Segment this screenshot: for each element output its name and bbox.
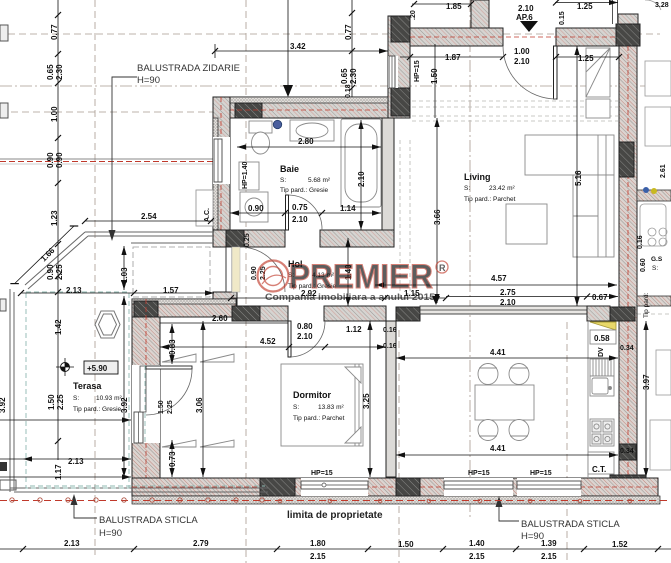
svg-text:A.C.: A.C. <box>204 208 211 222</box>
svg-text:1.23: 1.23 <box>50 210 59 226</box>
svg-text:2.10: 2.10 <box>500 298 516 307</box>
svg-text:5.16: 5.16 <box>574 170 583 186</box>
svg-text:4.41: 4.41 <box>490 444 506 453</box>
wall stub top corridor <box>471 0 489 28</box>
svg-text:2.10: 2.10 <box>514 57 530 66</box>
svg-text:1.25: 1.25 <box>578 54 594 63</box>
svg-text:2.80: 2.80 <box>298 137 314 146</box>
red dash baie north <box>213 109 394 111</box>
coffee table <box>506 204 547 244</box>
svg-text:limita de proprietate: limita de proprietate <box>287 510 383 521</box>
svg-text:PREMIER: PREMIER <box>289 258 433 296</box>
dashed rect above terasa <box>133 247 210 297</box>
svg-text:2.10: 2.10 <box>297 332 313 341</box>
svg-text:3.66: 3.66 <box>433 209 442 225</box>
svg-text:H=90: H=90 <box>521 531 544 542</box>
svg-text:0.60: 0.60 <box>640 258 647 272</box>
dormitor balcony window door arc <box>0 0 1 1</box>
bed head lines <box>355 364 359 446</box>
svg-text:3.92: 3.92 <box>0 397 7 413</box>
svg-text:HP=15: HP=15 <box>468 470 490 477</box>
svg-text:4.57: 4.57 <box>491 274 507 283</box>
dim 4.41 kitchen bottom <box>396 454 618 456</box>
dim 0.73 line <box>171 440 173 477</box>
svg-text:2.10: 2.10 <box>357 171 366 187</box>
block south wall 2 <box>396 478 420 496</box>
dim 2.54 line <box>85 220 213 222</box>
dim line baie y213 <box>230 212 381 214</box>
svg-text:1.00: 1.00 <box>50 106 59 122</box>
red dash east wall <box>627 46 629 496</box>
red dash dormitor west <box>145 299 147 478</box>
block SE corner <box>610 475 646 496</box>
svg-text:4.52: 4.52 <box>260 337 276 346</box>
neighbor cabinet 2 <box>645 107 671 146</box>
svg-text:1.52: 1.52 <box>612 540 628 549</box>
watermark R circle <box>436 261 448 273</box>
watermark logo circle <box>258 261 289 292</box>
block south wall 1 <box>260 478 295 496</box>
svg-text:2.15: 2.15 <box>310 552 326 561</box>
axis vertical x246 <box>245 0 247 563</box>
neighbor wall band 1 <box>637 190 671 201</box>
3.66 bottom arrow <box>432 296 440 305</box>
svg-text:3.42: 3.42 <box>290 42 306 51</box>
svg-text:H=90: H=90 <box>137 75 160 86</box>
dim 4.41 kitchen top <box>396 357 618 359</box>
svg-text:Compania imobiliara a anului 2: Compania imobiliara a anului 2015 <box>265 292 436 303</box>
parapet bottom <box>10 487 268 489</box>
wardrobe entry <box>586 48 610 97</box>
svg-text:5.68 m²: 5.68 m² <box>308 177 331 184</box>
dim 3.66 living <box>436 118 438 303</box>
glass partition living-kitchen <box>420 306 587 314</box>
label terasa <box>73 381 122 413</box>
svg-text:1.42: 1.42 <box>54 319 63 335</box>
wall entry north left <box>410 28 503 46</box>
toilet <box>249 121 272 154</box>
svg-text:0.90: 0.90 <box>248 204 264 213</box>
svg-text:0.90: 0.90 <box>46 264 55 280</box>
label living <box>464 172 516 203</box>
svg-text:1.40: 1.40 <box>469 539 485 548</box>
svg-text:BALUSTRADA STICLA: BALUSTRADA STICLA <box>99 515 198 526</box>
svg-text:1.87: 1.87 <box>445 53 461 62</box>
svg-text:2.15: 2.15 <box>469 552 485 561</box>
floor drain blue <box>273 120 281 128</box>
dim line terasa y293 <box>21 292 214 294</box>
neighbor cabinet 1 <box>645 61 671 96</box>
svg-text:Dormitor: Dormitor <box>293 390 331 400</box>
svg-text:1.12: 1.12 <box>346 325 362 334</box>
svg-text:1.00: 1.00 <box>514 47 530 56</box>
svg-text:13.83 m²: 13.83 m² <box>318 404 344 411</box>
wall hol-dormitor right <box>324 306 386 321</box>
pillow 1 <box>345 367 361 383</box>
wall kitchen north stub <box>587 306 610 321</box>
svg-text:2.60: 2.60 <box>212 314 228 323</box>
window kitchen south 1 <box>444 478 513 496</box>
window dormitor west <box>132 365 160 443</box>
dormitor balcony door leaf <box>146 366 192 369</box>
svg-text:2.25: 2.25 <box>56 394 65 410</box>
block NE corner <box>616 24 640 46</box>
svg-text:1.80: 1.80 <box>310 539 326 548</box>
counter shelf <box>590 330 616 344</box>
neighbor dashed right <box>637 313 671 315</box>
sink <box>590 376 614 396</box>
svg-text:0.58: 0.58 <box>594 334 610 343</box>
left column rect 1 <box>0 25 8 41</box>
svg-text:0.34: 0.34 <box>620 345 634 352</box>
svg-text:1.14: 1.14 <box>340 204 356 213</box>
block east wall low <box>619 444 636 460</box>
svg-text:2.30: 2.30 <box>349 68 358 84</box>
window baie west <box>213 137 230 184</box>
hexagon symbol terasa <box>95 311 120 338</box>
beam dashed over living entry <box>412 100 618 102</box>
dim 1.50 entry <box>434 44 436 118</box>
block hol SW <box>232 306 260 321</box>
dim chain x58 <box>57 0 59 460</box>
svg-text:0.90: 0.90 <box>55 152 64 168</box>
dim 3.06 dormitor <box>202 321 204 477</box>
svg-text:DV: DV <box>598 347 605 357</box>
wall east <box>619 46 637 496</box>
svg-text:BALUSTRADA STICLA: BALUSTRADA STICLA <box>521 519 620 530</box>
svg-text:0.73: 0.73 <box>168 451 177 467</box>
neighbor stove circles <box>648 228 667 246</box>
svg-text:0.67: 0.67 <box>592 293 608 302</box>
axis horizontal y34 <box>8 33 660 35</box>
svg-text:HP=15: HP=15 <box>414 60 421 82</box>
wall dormitor north exterior <box>132 299 236 317</box>
C.T. boiler <box>588 452 614 474</box>
red dash south wall <box>132 486 658 488</box>
dim line top 1.85 <box>412 3 471 5</box>
svg-text:0.25: 0.25 <box>244 233 251 247</box>
dim 2.80 baie <box>237 146 381 148</box>
axis vertical x470 <box>469 0 471 520</box>
svg-text:2.79: 2.79 <box>193 539 209 548</box>
wall baie south right <box>320 230 394 247</box>
block kitchen NW <box>396 307 420 321</box>
level marker +5.90 <box>56 358 118 376</box>
axis horizontal y86 <box>0 85 660 87</box>
bathtub <box>341 119 381 207</box>
dim bottom chain y549 <box>0 548 671 550</box>
wall baie east interior <box>382 118 394 238</box>
sofa horizontal <box>525 135 614 175</box>
stove <box>590 419 614 446</box>
svg-text:0.90: 0.90 <box>46 152 55 168</box>
svg-text:10.93 m²: 10.93 m² <box>96 395 122 402</box>
svg-text:HP=15: HP=15 <box>530 470 552 477</box>
svg-text:1.17: 1.17 <box>54 464 63 480</box>
parapet left <box>9 289 11 492</box>
dim 2.13 terasa low <box>0 458 131 460</box>
window entry west <box>388 56 398 88</box>
dim line terasa y477 <box>0 476 131 478</box>
svg-text:0.77: 0.77 <box>50 24 59 40</box>
red property dash left y161 <box>0 161 213 163</box>
wall baie north <box>213 97 394 118</box>
dim 2.10 baie <box>360 120 362 230</box>
svg-text:2.61: 2.61 <box>660 164 667 178</box>
red dash baie west <box>220 97 222 247</box>
svg-text:Tip pard.: Gresie: Tip pard.: Gresie <box>73 406 122 413</box>
svg-text:Tip pard:: Tip pard: <box>643 292 650 318</box>
svg-text:1.50: 1.50 <box>158 400 165 414</box>
arrows special <box>71 21 539 521</box>
gas meter blue <box>643 187 649 193</box>
dim line y57 entry <box>400 56 503 58</box>
block east wall kitchen <box>610 307 635 321</box>
bed <box>281 364 363 446</box>
neighbor wall band 2 <box>637 296 671 306</box>
balustrada sticla left leader <box>71 494 98 518</box>
parapet top <box>88 235 214 237</box>
balustrade posts bottom circles <box>10 498 632 503</box>
svg-text:Tip pard.: Parchet: Tip pard.: Parchet <box>464 196 516 203</box>
svg-text:S:: S: <box>293 404 299 411</box>
svg-text:Living: Living <box>464 172 491 182</box>
block entry west top <box>391 16 410 42</box>
dim line y330 dormitor <box>160 322 288 324</box>
svg-text:Tip pard.: Parchet: Tip pard.: Parchet <box>293 415 345 422</box>
svg-text:2.13: 2.13 <box>64 539 80 548</box>
dim 3.97 kitchen <box>645 321 647 477</box>
wall dormitor-kitchen <box>386 321 396 477</box>
axis vertical x95 <box>94 0 96 555</box>
dim 1.66 diagonal <box>15 226 74 284</box>
insulation baie north <box>213 97 394 103</box>
wall baie south left <box>213 230 285 247</box>
beam dashed over hol opening <box>400 101 671 314</box>
wall south <box>132 478 658 496</box>
dim 5.16 living <box>576 46 578 306</box>
dim line terasa y420 <box>0 419 131 421</box>
svg-text:Baie: Baie <box>280 164 299 174</box>
svg-text:2.15: 2.15 <box>541 552 557 561</box>
left black square <box>0 462 7 471</box>
gas meter yellow <box>651 188 657 194</box>
chair top1 <box>478 364 498 385</box>
wall hol west corner <box>213 292 237 307</box>
svg-text:3.25: 3.25 <box>362 393 371 409</box>
window dormitor south <box>301 478 368 496</box>
block east wall mid <box>619 142 634 177</box>
left column rect 3 <box>0 299 6 311</box>
dim line top 1.25 <box>555 2 618 4</box>
parapet diagonal <box>28 236 88 289</box>
svg-text:2.13: 2.13 <box>66 286 82 295</box>
svg-text:1.57: 1.57 <box>163 286 179 295</box>
svg-text:2.13: 2.13 <box>68 457 84 466</box>
dim 3.92 terasa <box>123 296 125 477</box>
svg-text:S:: S: <box>464 185 470 192</box>
svg-text:3.06: 3.06 <box>195 397 204 413</box>
dormitor balcony door arc <box>146 369 192 415</box>
east wall top extension <box>618 14 638 26</box>
left neighbor edge lines <box>0 25 213 490</box>
svg-text:G.S: G.S <box>651 256 663 263</box>
svg-text:.20: .20 <box>410 10 417 20</box>
svg-text:HP=15: HP=15 <box>311 470 333 477</box>
insulation south wall <box>132 496 660 504</box>
svg-text:0.75: 0.75 <box>292 203 308 212</box>
svg-text:3.97: 3.97 <box>642 374 651 390</box>
svg-text:0.18: 0.18 <box>345 84 352 98</box>
chair top2 <box>509 364 529 385</box>
A.C. niche <box>196 190 213 226</box>
ref line x288 <box>287 0 289 92</box>
label dormitor <box>293 390 345 422</box>
svg-text:2.54: 2.54 <box>141 212 157 221</box>
svg-text:Tip pard.: Gresie: Tip pard.: Gresie <box>280 187 329 194</box>
svg-text:Terasa: Terasa <box>73 381 102 391</box>
svg-text:0.15: 0.15 <box>559 11 566 25</box>
entry cabinet <box>586 99 610 118</box>
svg-text:R: R <box>439 263 446 273</box>
wall stub above entry <box>613 0 618 24</box>
svg-text:0.16: 0.16 <box>383 327 397 334</box>
DV cabinet yellow <box>590 322 616 330</box>
svg-text:2.30: 2.30 <box>55 64 64 80</box>
svg-text:S:: S: <box>280 177 286 184</box>
svg-text:AP.6: AP.6 <box>516 13 533 22</box>
axis vertical x567 <box>566 322 568 563</box>
dim 1.03 <box>123 246 125 290</box>
insulation dormitor north <box>132 299 236 304</box>
wall entry north right <box>556 28 619 46</box>
baie shelf <box>239 162 259 190</box>
terasa door hol <box>226 247 285 292</box>
washbasin <box>290 120 334 141</box>
block dormitor NW <box>134 301 158 317</box>
svg-text:3.28: 3.28 <box>655 2 669 9</box>
kitchen counter line <box>587 321 589 477</box>
svg-text:0.65: 0.65 <box>340 68 349 84</box>
dim chain x352 <box>351 0 353 97</box>
arrow into plan x288 <box>283 85 293 97</box>
label balustrada zidarie <box>137 63 240 86</box>
label balustrada sticla left <box>99 515 198 539</box>
svg-text:S:: S: <box>73 395 79 402</box>
block entry west bottom <box>391 88 410 116</box>
window kitchen south 2 <box>517 478 581 496</box>
balustrada sticla right leader <box>496 496 520 521</box>
svg-text:1.50: 1.50 <box>47 394 56 410</box>
svg-text:1.85: 1.85 <box>446 2 462 11</box>
entry door AP.6 <box>503 46 557 99</box>
washing machine <box>240 192 268 222</box>
terasa dashed floor outline <box>26 292 265 488</box>
dim 4.57 living <box>375 284 617 286</box>
dishwasher <box>590 359 614 376</box>
svg-text:2.10: 2.10 <box>518 4 534 13</box>
svg-text:C.T.: C.T. <box>592 465 606 474</box>
dim line y298 hol-living <box>231 297 446 299</box>
neighbor door arc top right <box>645 0 661 10</box>
svg-text:0.16: 0.16 <box>637 235 644 249</box>
left white rect low <box>0 480 16 490</box>
dormitor door <box>288 321 325 357</box>
axis vertical x399 <box>398 330 400 563</box>
AP.6 entrance arrow <box>520 21 538 32</box>
svg-text:1.50: 1.50 <box>430 68 439 84</box>
dim 3.42 line <box>215 44 388 58</box>
svg-text:H=90: H=90 <box>99 528 122 539</box>
wardrobe triangles top <box>162 354 234 362</box>
svg-text:0.34: 0.34 <box>620 448 634 455</box>
svg-text:2.10: 2.10 <box>292 215 308 224</box>
left column rect 2 <box>0 103 8 118</box>
svg-text:2.25: 2.25 <box>55 264 64 280</box>
svg-text:2.25: 2.25 <box>167 400 174 414</box>
pillow 2 <box>345 427 361 443</box>
chair bottom1 <box>478 420 498 441</box>
balustrada zidarie leader <box>109 77 138 241</box>
label hol <box>288 259 337 290</box>
svg-text:1.50: 1.50 <box>398 540 414 549</box>
neighbor furniture low 2 <box>650 420 671 470</box>
svg-text:23.42 m²: 23.42 m² <box>489 185 515 192</box>
wall baie west <box>213 97 230 247</box>
neighbor tub <box>640 204 666 246</box>
chair bottom2 <box>509 420 529 441</box>
svg-text:1.03: 1.03 <box>120 267 129 283</box>
svg-text:1.25: 1.25 <box>577 2 593 11</box>
block baie south <box>226 230 244 247</box>
wall dormitor west <box>132 317 160 478</box>
svg-text:+5.90: +5.90 <box>87 364 108 373</box>
gray double line left y159 <box>0 158 213 160</box>
dim 1.40 hol <box>347 238 349 306</box>
svg-text:0.83: 0.83 <box>168 339 177 355</box>
svg-text:4.41: 4.41 <box>490 348 506 357</box>
neighbor furniture low 1 <box>656 350 671 395</box>
wall entry west <box>388 16 410 118</box>
svg-text:2.75: 2.75 <box>500 288 516 297</box>
baie door <box>286 195 323 230</box>
svg-text:S:: S: <box>652 265 658 272</box>
svg-text:0.65: 0.65 <box>46 64 55 80</box>
dim 0.83 line <box>171 324 173 364</box>
column block baie north <box>235 103 262 118</box>
label balustrada sticla right <box>521 519 620 542</box>
axis horizontal y112 <box>0 111 213 113</box>
svg-text:BALUSTRADA ZIDARIE: BALUSTRADA ZIDARIE <box>137 63 240 74</box>
insulation baie west <box>213 118 218 247</box>
red dash entry north <box>410 36 619 38</box>
wardrobe triangles bottom <box>162 440 234 447</box>
dim 4.52 dormitor <box>160 346 386 348</box>
svg-text:0.16: 0.16 <box>383 343 397 350</box>
sofa vertical <box>573 175 614 257</box>
sofa inner lines <box>573 135 606 257</box>
dim 3.25 dormitor <box>369 321 371 477</box>
svg-text:0.77: 0.77 <box>344 24 353 40</box>
svg-text:HP=1.40: HP=1.40 <box>242 161 249 189</box>
wall hol-dormitor left <box>260 306 288 321</box>
svg-text:0.80: 0.80 <box>297 322 313 331</box>
property line red dashed bottom <box>0 500 671 502</box>
dining table <box>475 385 534 420</box>
label baie <box>280 164 331 194</box>
